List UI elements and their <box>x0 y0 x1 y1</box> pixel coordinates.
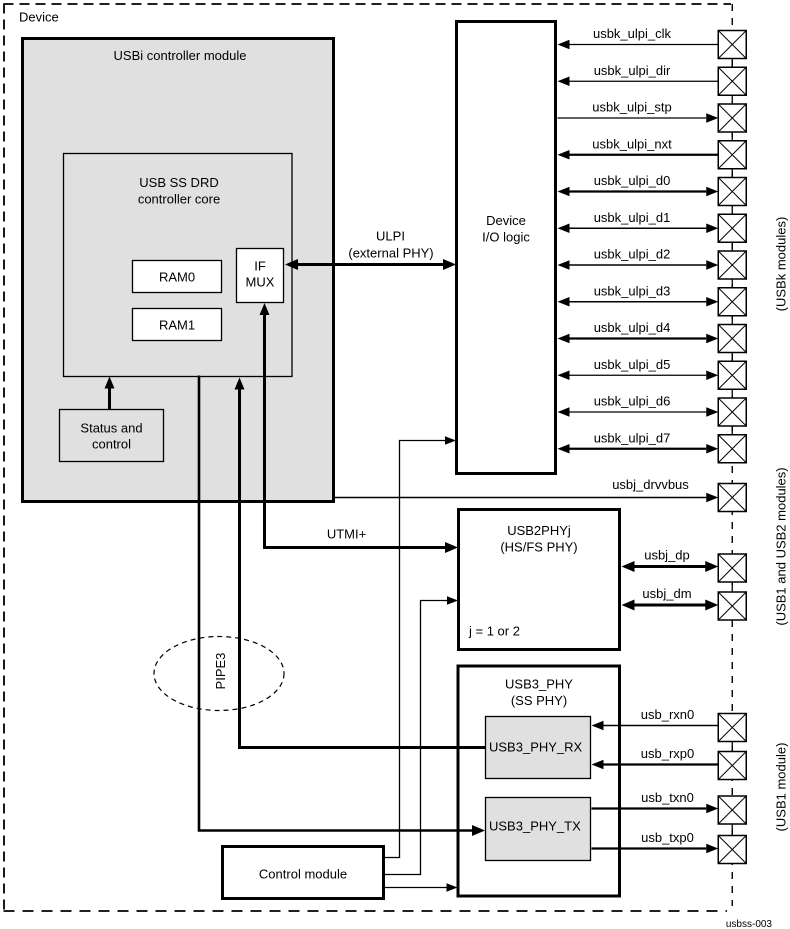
PIPE3 interface ellipse (dashed) <box>154 637 284 711</box>
svg-text:USB2PHYj: USB2PHYj <box>507 523 571 538</box>
USB3_PHY box <box>458 666 620 896</box>
wire usbj_dm <box>622 586 719 611</box>
pad group connector stubs <box>731 58 733 837</box>
wire Status and control to core (up arrow) <box>105 377 115 410</box>
wire ULPI (IF MUX to Device I/O logic, bidirectional) <box>285 259 456 270</box>
Control module box <box>223 847 384 899</box>
pad usbk_ulpi_nxt (I/O cell) <box>718 141 746 169</box>
svg-text:control: control <box>92 437 131 452</box>
svg-text:usbk_ulpi_d5: usbk_ulpi_d5 <box>594 357 671 372</box>
svg-text:I/O logic: I/O logic <box>482 230 530 245</box>
wire usb_rxn0 <box>592 707 719 730</box>
svg-text:usbk_ulpi_d1: usbk_ulpi_d1 <box>594 210 671 225</box>
svg-text:(USB1 and USB2 modules): (USB1 and USB2 modules) <box>774 467 789 625</box>
RAM0 <box>133 261 222 293</box>
pad usbk_ulpi_d4 (I/O cell) <box>718 325 746 353</box>
wire usbk_ulpi_d3 <box>558 283 719 306</box>
svg-text:j = 1 or 2: j = 1 or 2 <box>468 624 520 639</box>
svg-text:usbk_ulpi_d4: usbk_ulpi_d4 <box>594 320 671 335</box>
wire PIPE3 RX (USB3_PHY_RX to controller core, up arrow) <box>235 378 486 748</box>
svg-text:usbk_ulpi_dir: usbk_ulpi_dir <box>594 63 671 78</box>
USBi controller module box <box>23 39 334 502</box>
wire usb_txn0 <box>592 790 719 813</box>
RAM1 <box>133 309 222 341</box>
pad usb_txn0 (I/O cell) <box>718 796 746 824</box>
svg-text:(HS/FS PHY): (HS/FS PHY) <box>500 540 577 555</box>
wire usbk_ulpi_dir <box>558 63 719 86</box>
svg-text:UTMI+: UTMI+ <box>327 527 366 542</box>
svg-text:usbss-003: usbss-003 <box>726 919 773 929</box>
svg-text:usb_rxp0: usb_rxp0 <box>641 746 694 761</box>
pad usb_rxp0 (I/O cell) <box>718 752 746 780</box>
Device I/O logic box <box>457 22 556 474</box>
IF MUX <box>237 249 284 303</box>
wire usbk_ulpi_d0 <box>558 173 719 196</box>
pad usb_txp0 (I/O cell) <box>718 836 746 864</box>
pad usbk_ulpi_clk (I/O cell) <box>718 31 746 59</box>
pad usbk_ulpi_d5 (I/O cell) <box>718 361 746 389</box>
wire Control module to USB2PHYj <box>385 596 458 874</box>
wire usb_rxp0 <box>592 746 719 769</box>
wire PIPE3 TX (controller core down to USB3_PHY_TX) <box>199 376 485 837</box>
pad usbk_ulpi_d6 (I/O cell) <box>718 398 746 426</box>
svg-text:(USBk modules): (USBk modules) <box>774 217 789 312</box>
wire usbk_ulpi_nxt <box>558 136 719 159</box>
svg-text:usbk_ulpi_d3: usbk_ulpi_d3 <box>594 283 671 298</box>
pad usbk_ulpi_d1 (I/O cell) <box>718 214 746 242</box>
pad usb_rxn0 (I/O cell) <box>718 714 746 742</box>
svg-text:(external PHY): (external PHY) <box>348 246 433 261</box>
svg-text:usbk_ulpi_d0: usbk_ulpi_d0 <box>594 173 671 188</box>
svg-text:USB3_PHY_RX: USB3_PHY_RX <box>489 740 583 755</box>
svg-text:usb_rxn0: usb_rxn0 <box>641 707 694 722</box>
wire usbk_ulpi_clk <box>558 26 719 49</box>
svg-text:ULPI: ULPI <box>376 229 405 244</box>
svg-text:USB3_PHY_TX: USB3_PHY_TX <box>489 819 581 834</box>
pad usbk_ulpi_d2 (I/O cell) <box>718 251 746 279</box>
USB SS DRD controller core box <box>64 154 293 377</box>
wire usb_txp0 <box>592 830 719 853</box>
svg-text:usbj_dp: usbj_dp <box>644 548 690 563</box>
svg-text:usbk_ulpi_stp: usbk_ulpi_stp <box>592 100 672 115</box>
svg-text:Status and: Status and <box>80 421 142 436</box>
pad usbk_ulpi_dir (I/O cell) <box>718 67 746 95</box>
svg-text:usbk_ulpi_clk: usbk_ulpi_clk <box>593 26 672 41</box>
svg-text:usbj_drvvbus: usbj_drvvbus <box>612 477 689 492</box>
wire usbk_ulpi_d5 <box>558 357 719 380</box>
USB SS DRD controller core label <box>138 175 220 207</box>
pad usbk_ulpi_d7 (I/O cell) <box>718 435 746 463</box>
svg-text:Device: Device <box>19 10 59 25</box>
svg-text:controller core: controller core <box>138 192 220 207</box>
wire usbk_ulpi_d2 <box>558 247 719 270</box>
pad usbk_ulpi_stp (I/O cell) <box>718 104 746 132</box>
ULPI label <box>348 229 433 261</box>
svg-text:(SS PHY): (SS PHY) <box>511 693 567 708</box>
svg-text:usbk_ulpi_d7: usbk_ulpi_d7 <box>594 430 671 445</box>
svg-text:(USB1 module): (USB1 module) <box>774 743 789 832</box>
pad usbk_ulpi_d3 (I/O cell) <box>718 288 746 316</box>
USB3_PHY_RX box <box>486 717 591 779</box>
svg-text:usbj_dm: usbj_dm <box>642 586 691 601</box>
svg-text:usb_txn0: usb_txn0 <box>641 790 694 805</box>
wire Control module to Device I/O logic <box>385 436 456 857</box>
svg-text:RAM0: RAM0 <box>159 270 195 285</box>
module boundary dashed net line (pads column) <box>731 4 733 906</box>
wire usbk_ulpi_d6 <box>558 394 719 417</box>
svg-text:usbk_ulpi_d6: usbk_ulpi_d6 <box>594 394 671 409</box>
USB3_PHY_TX box <box>486 798 591 861</box>
wire usbj_dp <box>622 548 719 573</box>
wire usbk_ulpi_d1 <box>558 210 719 233</box>
pad usbj_dm (I/O cell) <box>718 592 746 620</box>
svg-text:MUX: MUX <box>246 275 275 290</box>
svg-text:Control module: Control module <box>259 867 347 882</box>
svg-text:PIPE3: PIPE3 <box>213 653 228 690</box>
svg-text:USB3_PHY: USB3_PHY <box>505 677 573 692</box>
pad usbk_ulpi_d0 (I/O cell) <box>718 178 746 206</box>
svg-text:usbk_ulpi_d2: usbk_ulpi_d2 <box>594 247 671 262</box>
svg-text:Device: Device <box>486 213 526 228</box>
svg-text:usb_txp0: usb_txp0 <box>641 830 694 845</box>
USB2PHYj box <box>459 510 620 650</box>
svg-text:USB SS DRD: USB SS DRD <box>139 175 218 190</box>
wire Control module to USB3_PHY <box>385 883 458 892</box>
wire usbk_ulpi_stp <box>558 100 719 123</box>
wire usbj_drvvbus <box>335 477 718 502</box>
svg-text:IF: IF <box>254 259 266 274</box>
wire usbk_ulpi_d4 <box>558 320 719 343</box>
svg-text:RAM1: RAM1 <box>159 318 195 333</box>
svg-text:USBi controller module: USBi controller module <box>114 48 247 63</box>
svg-text:usbk_ulpi_nxt: usbk_ulpi_nxt <box>592 136 672 151</box>
wire UTMI+ (IF MUX down to USB2PHYj) <box>260 303 459 553</box>
pad usbj_dp (I/O cell) <box>718 554 746 582</box>
Status and control box <box>60 410 164 462</box>
wire usbk_ulpi_d7 <box>558 430 719 453</box>
pad usbj_drvvbus (I/O cell) <box>718 484 746 512</box>
